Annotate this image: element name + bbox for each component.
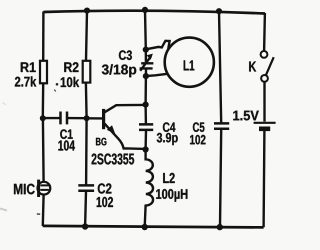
capacitor C5 (214, 123, 229, 128)
wire top rail to R2 (86, 11, 87, 61)
wire base node to C2 (85, 118, 88, 185)
wire MIC to bottom rail (42, 195, 45, 226)
label C4 value 3.9p (157, 133, 178, 145)
wire switch to battery (263, 82, 265, 122)
capacitor C2 (78, 185, 94, 190)
node top rail R2 junction (84, 8, 90, 14)
label C4 (163, 122, 176, 131)
inductor L2 (145, 150, 153, 227)
label C2 value 102 (97, 197, 113, 207)
label MIC (14, 184, 35, 195)
label L1 (184, 60, 195, 70)
scan speck before 10k (56, 83, 59, 86)
transistor BG emitter lead (105, 124, 146, 149)
label C3 value 3/18p (102, 64, 136, 77)
microphone MIC symbol (38, 180, 51, 197)
label R1 (21, 62, 36, 72)
node C2 bottom junction (82, 223, 88, 229)
node L2 bottom junction (142, 224, 148, 230)
resistor R2 (83, 61, 91, 83)
scan speck left edge (3, 103, 7, 105)
transistor BG emitter arrow (107, 125, 115, 134)
label R2 value 10k (61, 77, 79, 87)
node collector junction (143, 102, 149, 108)
wire R1 to C1 node (42, 83, 45, 118)
label K (249, 62, 256, 72)
wire L1 top link (146, 41, 170, 50)
label L2 value 100uH (156, 189, 187, 202)
node base junction (84, 115, 90, 121)
wire left branch upper (42, 12, 45, 61)
node top rail C5 junction (216, 8, 222, 14)
wire right branch to switch (263, 13, 266, 51)
switch K (261, 51, 274, 82)
scan speck near mic (37, 213, 40, 215)
transistor BG base bar (102, 109, 105, 129)
label BG (96, 138, 106, 146)
label C3 (119, 50, 132, 60)
transistor BG collector lead (105, 105, 146, 112)
wire C1 right lead (68, 117, 87, 119)
wire C4 to emitter node (144, 130, 147, 149)
label C1 value 104 (58, 140, 75, 150)
node top rail tank junction (142, 7, 148, 13)
label R1 value 2.7k (15, 76, 36, 86)
node tank B (143, 73, 149, 79)
wire C1 node to MIC (42, 118, 45, 182)
node tank A (143, 47, 149, 53)
battery 1.5V (254, 123, 276, 129)
resistor R1 (40, 61, 47, 84)
node emitter junction (143, 146, 149, 152)
wire bottom rail (43, 226, 264, 228)
wire collector node to C4 (144, 105, 147, 124)
capacitor C3 trimmer (140, 50, 154, 76)
wire base node to transistor base (87, 117, 103, 119)
wire top rail to C5 (219, 11, 221, 123)
label C2 (98, 183, 112, 193)
wire battery to bottom rail (262, 131, 265, 227)
capacitor C1 (61, 112, 68, 125)
node C1 left junction (40, 115, 46, 121)
label L2 (163, 173, 175, 183)
wire C1 left lead (43, 117, 60, 119)
wire top rail (43, 11, 265, 14)
label battery value 1.5V (233, 111, 258, 121)
scan smudge left edge (0, 209, 7, 211)
wire tank B to collector node (144, 76, 147, 105)
inductor L1 (165, 38, 214, 87)
label C5 (193, 122, 205, 131)
wire C2 to bottom rail (84, 191, 87, 226)
wire R2 to base node (85, 83, 88, 118)
label C5 value 102 (190, 135, 205, 145)
node C5 bottom junction (217, 224, 223, 230)
label R2 (64, 62, 78, 72)
wire top rail to tank node A (144, 10, 147, 49)
wire C5 to bottom rail (220, 129, 221, 227)
wire L1 bottom link (146, 74, 168, 76)
capacitor C4 (139, 124, 153, 129)
label C1 (60, 129, 72, 139)
label BG type 2SC3355 (92, 154, 135, 165)
